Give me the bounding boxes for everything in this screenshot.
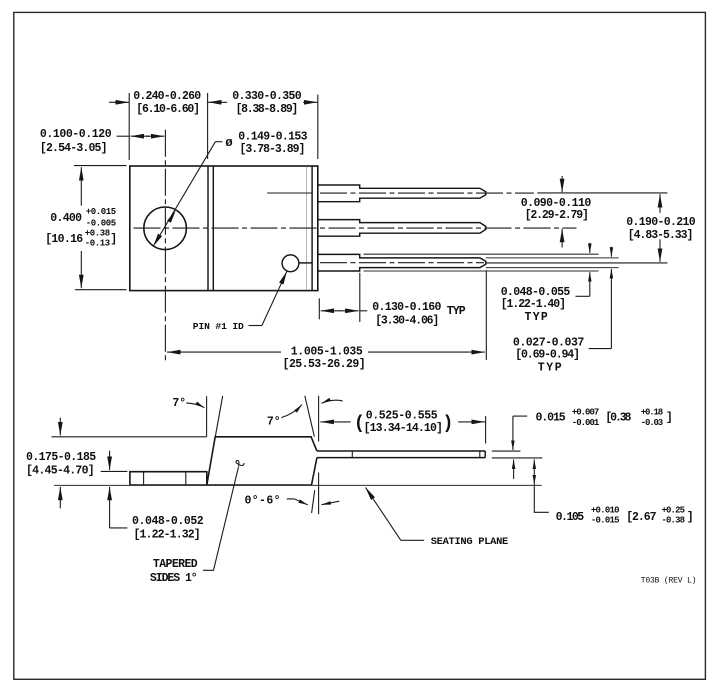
dimension 0.240-0.260 extension lines [129,93,318,160]
svg-text:+0.015: +0.015 [86,207,116,217]
tapered sides leader [203,467,239,571]
svg-text:0.175-0.185: 0.175-0.185 [26,451,96,464]
svg-text:-0.005: -0.005 [86,218,116,228]
side view tab section ticks [144,472,186,485]
svg-text:+0.38: +0.38 [85,229,110,239]
svg-text:[6.10-6.60]: [6.10-6.60] [136,103,200,116]
pin 3 centerline [320,262,484,264]
dimension 0.130-0.160 extension lines [319,273,360,322]
lead tip extension line side view [485,416,487,443]
dimension 1.005-1.035 arrows [167,351,281,353]
lead pin 2 (middle) [318,220,486,237]
pin 3 centerline solid extension [486,262,668,264]
svg-text:[10.16: [10.16 [45,233,83,246]
dimension 0.400 arrows [80,167,82,205]
svg-text:0.330-0.350: 0.330-0.350 [232,90,302,103]
dimension 0.027-0.037 arrows and leader [610,247,612,257]
svg-text:[3.78-3.89]: [3.78-3.89] [240,143,306,156]
7deg right slant extension [305,396,315,437]
pin 1 centerline solid extension [537,192,667,194]
dimension 0.240-0.260 left arrow [109,101,129,103]
svg-text:[3.30-4.06]: [3.30-4.06] [375,315,439,328]
7deg label 2 counter arrow [322,400,343,403]
pin 1 centerline inside body [267,192,312,194]
svg-text:PIN #1 ID: PIN #1 ID [193,321,244,332]
svg-text:[13.34-14.10]: [13.34-14.10] [364,422,443,435]
hole diameter leader diagonal [215,141,222,143]
svg-text:TYP: TYP [447,305,466,318]
svg-text:0.130-0.160: 0.130-0.160 [372,301,441,314]
svg-text:TYP: TYP [538,362,562,375]
svg-text:0.048-0.052: 0.048-0.052 [132,515,204,528]
svg-text:0.190-0.210: 0.190-0.210 [626,216,696,229]
svg-text:-0.38: -0.38 [662,516,686,526]
svg-text:[2.54-3.05]: [2.54-3.05] [40,142,108,155]
side view body bottom edge [130,484,312,486]
body step line left pair [208,166,213,291]
svg-text:-0.015: -0.015 [591,516,620,526]
svg-text:1.005-1.035: 1.005-1.035 [291,346,363,359]
tapered sides squiggle [236,460,244,466]
svg-text:+0.18: +0.18 [641,408,664,418]
body inner line right [311,166,313,291]
svg-text:T03B (REV L): T03B (REV L) [641,576,697,585]
svg-text:SIDES 1°: SIDES 1° [150,572,198,585]
0-6deg counter arrow [322,501,340,505]
svg-text:0.149-0.153: 0.149-0.153 [238,131,307,144]
0-6deg leader arrow [287,499,308,505]
svg-text:): ) [443,414,454,434]
side view lead [317,451,485,458]
mounting hole [144,207,187,250]
svg-text:+0.25: +0.25 [662,506,686,516]
7deg left vertical reference [206,396,208,436]
dimension 0.190-0.210 arrows [659,194,661,213]
svg-text:-0.03: -0.03 [641,418,664,428]
svg-text:0.100-0.120: 0.100-0.120 [40,128,112,141]
lead pin 3 (bottom) [318,254,486,271]
side view body outline [207,437,317,485]
svg-text:]: ] [110,233,117,246]
7deg left slant extension [215,396,222,437]
7deg label 2 arrow [281,405,302,418]
dimension 0.048-0.052 arrows and leader [109,451,111,470]
side view tab outline [130,472,207,485]
dimension 0.400 extension lines [74,166,127,290]
dimension 0.090-0.110 arrows [561,176,563,192]
svg-text:7°: 7° [172,397,186,410]
lead pin 1 (top) [318,185,486,202]
svg-text:0.400: 0.400 [50,212,82,225]
seating plane line [54,484,542,486]
dimension 0.015 up arrow [513,460,515,479]
svg-text:[8.38-8.89]: [8.38-8.89] [236,103,299,116]
dimension 0.130-0.160 arrows [321,310,340,312]
dimension 0.100-0.120 stub [117,135,130,137]
svg-text:[4.45-4.70]: [4.45-4.70] [26,464,95,477]
right vertical reference line [318,396,320,515]
hole diameter inner arrowhead [167,210,176,223]
svg-text:]: ] [666,412,673,425]
svg-text:0.240-0.260: 0.240-0.260 [133,90,201,103]
dimension 0.525-0.555 arrows [320,421,350,423]
svg-text:[0.69-0.94]: [0.69-0.94] [515,348,580,361]
dimension 0.015 extension lines [492,451,543,458]
pin 3 width extension lines outer [364,254,599,271]
dimension 0.330-0.350 left arrow [208,101,227,103]
svg-text:+0.010: +0.010 [591,506,620,516]
package body front view outline [130,166,318,291]
svg-text:TAPERED: TAPERED [153,558,198,571]
svg-text:-0.13: -0.13 [85,239,110,249]
side view body right lower edge [312,458,317,485]
svg-text:[25.53-26.29]: [25.53-26.29] [283,358,366,371]
svg-text:+0.007: +0.007 [572,408,600,418]
pin 1 ID stub wire [298,262,312,264]
pin 1 centerline [320,192,534,194]
svg-text:-0.001: -0.001 [572,418,600,428]
svg-text:0.525-0.555: 0.525-0.555 [366,410,438,423]
svg-text:[1.22-1.32]: [1.22-1.32] [134,529,201,542]
svg-text:]: ] [687,511,694,524]
svg-text:0.105: 0.105 [556,511,585,524]
svg-text:0°-6°: 0°-6° [245,494,281,507]
dimension 0.015 leader and arrow [513,415,527,417]
seating plane leader [401,539,424,541]
svg-text:[4.83-5.33]: [4.83-5.33] [628,229,694,242]
dimension 0.175-0.185 extension and arrows [52,436,207,438]
svg-text:[0.38: [0.38 [605,412,631,425]
dimension 0.048-0.055 arrows and leader [589,243,591,253]
7deg label 1 arrow [186,403,204,408]
svg-text:TYP: TYP [525,311,548,324]
tab top extension line [101,470,128,472]
svg-text:SEATING PLANE: SEATING PLANE [431,536,509,548]
svg-text:[1.22-1.40]: [1.22-1.40] [501,298,566,311]
hole vertical centerline [164,130,166,361]
svg-text:ø: ø [225,136,233,150]
body mold line (light) [306,167,308,290]
dimension 0.100-0.120 arrows [131,135,150,137]
svg-text:0.015: 0.015 [536,412,566,425]
pin 2 centerline [134,227,577,229]
svg-text:[2.67: [2.67 [626,511,656,524]
pin 3 thickness extension lines inner [486,258,619,268]
side view lead ticks [352,451,480,458]
dimension 0.105 arrows [533,460,535,470]
dimension 0.330-0.350 right arrow [303,101,317,103]
dimension 1.005-1.035 extension line [485,270,487,360]
svg-text:0.090-0.110: 0.090-0.110 [521,197,592,210]
svg-text:7°: 7° [267,416,281,429]
pin 1 ID leader [249,325,262,327]
pin 1 ID circle [282,255,299,272]
svg-text:[2.29-2.79]: [2.29-2.79] [525,209,589,222]
0-6deg slant line [312,490,315,513]
